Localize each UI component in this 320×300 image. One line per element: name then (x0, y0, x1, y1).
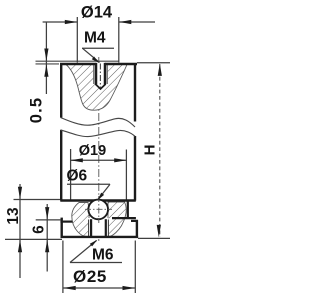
centerline (98, 57, 100, 241)
svg-text:0.5: 0.5 (28, 97, 46, 124)
svg-text:M6: M6 (92, 247, 114, 264)
dim Ø25 left arrow (63, 286, 75, 290)
circle crosshair horizontal (85, 208, 112, 210)
svg-text:13: 13 (5, 207, 22, 225)
M6 leader underline (70, 262, 122, 264)
circle crosshair vertical (98, 196, 100, 223)
break line upper (61, 118, 136, 128)
boss top line 0.5 step (36, 60, 120, 62)
cross hole circle (88, 200, 108, 220)
dim Ø25 ext left (62, 241, 64, 294)
dim Ø14 line (43, 21, 77, 23)
dim 0.5 lower arrow (44, 64, 48, 77)
bottom face (61, 236, 139, 238)
dim 13/6 ext bottom (5, 238, 62, 240)
svg-text:Ø6: Ø6 (67, 168, 88, 185)
dim Ø14 right arrow (119, 20, 132, 24)
svg-text:H: H (142, 145, 159, 156)
dim 13 line (19, 184, 21, 278)
dim 13 ext top (14, 199, 61, 201)
M6 hole (88, 218, 108, 236)
dim 0.5 line (45, 22, 47, 94)
dim H bottom ext (138, 237, 170, 239)
dim Ø14 ext lines (76, 17, 78, 63)
top section hatch (66, 65, 127, 111)
dim H line (159, 64, 161, 237)
dim 13 top arrow (18, 187, 22, 200)
dim H top arrow (158, 63, 162, 76)
break line lower (61, 130, 136, 137)
dim Ø25 right arrow (123, 286, 136, 290)
svg-text:Ø19: Ø19 (79, 143, 106, 159)
right step line (112, 217, 136, 219)
flange left step (60, 221, 72, 223)
dim 0.5 upper arrow (44, 49, 48, 62)
0.5 lower ext (36, 63, 60, 65)
dim Ø19 line (71, 159, 126, 161)
Ø6 leader slant (98, 184, 110, 199)
M6 leader arrow (90, 240, 98, 247)
dim 6 line (46, 204, 48, 272)
M6 leader slant (70, 241, 97, 263)
dim 13 bottom arrow (18, 240, 22, 253)
M4 leader slant (83, 48, 100, 62)
svg-text:6: 6 (31, 225, 48, 234)
body right edge (134, 63, 136, 122)
dim H bottom arrow (157, 225, 161, 238)
bore bottom (60, 199, 136, 201)
M4 leader arrow (92, 57, 99, 64)
bore wall right (125, 150, 127, 201)
flange left disc edge (61, 218, 63, 238)
dim H top ext (137, 62, 170, 64)
bottom hatch right (108, 202, 126, 236)
svg-text:Ø25: Ø25 (73, 267, 107, 286)
body left edge (60, 63, 62, 118)
dim 6 bottom arrow (45, 240, 49, 253)
M4 hole (93, 63, 108, 90)
Ø6 leader underline (67, 183, 110, 185)
dim 6 ext top (36, 219, 61, 221)
flange right step (131, 220, 138, 222)
dim 6 top arrow (45, 207, 49, 220)
dim Ø19 right arrow (114, 158, 127, 162)
dim Ø14 left arrow (65, 20, 78, 24)
dim Ø25 ext right (134, 241, 136, 294)
right neck (127, 201, 129, 219)
bore wall left (70, 149, 72, 201)
dim Ø25 line (63, 287, 135, 289)
body top face (60, 63, 96, 65)
svg-text:M4: M4 (84, 30, 106, 47)
M4 leader underline (82, 47, 114, 49)
Ø6 leader arrow (98, 193, 105, 201)
bottom hatch left (72, 203, 89, 237)
flange right disc edge (136, 220, 138, 238)
dim Ø19 left arrow (70, 158, 83, 162)
svg-text:Ø14: Ø14 (81, 3, 113, 21)
